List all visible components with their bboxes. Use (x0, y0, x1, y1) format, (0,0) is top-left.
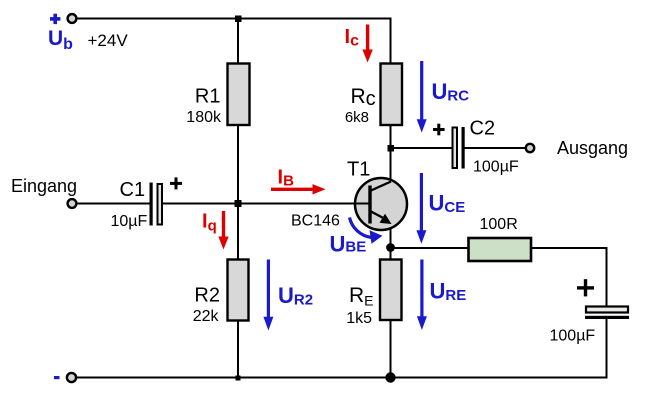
arrow URE blue (417, 260, 427, 331)
svg-text:6k8: 6k8 (345, 109, 369, 126)
svg-text:22k: 22k (193, 308, 220, 325)
arrow IB red (271, 184, 326, 194)
svg-text:100µF: 100µF (473, 159, 519, 176)
node collector junction (388, 145, 395, 152)
resistor R1 (228, 64, 250, 126)
svg-text:Rc: Rc (351, 85, 376, 110)
capacitor C2 (453, 127, 465, 169)
svg-text:Eingang: Eingang (11, 176, 77, 196)
svg-text:T1: T1 (347, 159, 370, 181)
capacitor C3 100uF (585, 307, 629, 320)
svg-text:100µF: 100µF (550, 328, 596, 345)
svg-text:R2: R2 (194, 285, 220, 307)
wire R1 top drop (237, 19, 239, 65)
svg-text:+24V: +24V (88, 31, 129, 50)
wire base node to R2 (237, 204, 239, 261)
arrow UR2 blue (263, 260, 273, 331)
wire Eingang to C1 (76, 203, 150, 205)
wire RE bottom to rail (390, 320, 392, 378)
wire bottom rail (76, 377, 608, 379)
capacitor C1 (150, 183, 163, 226)
resistor Rc (381, 64, 403, 126)
wire Rc top drop (390, 18, 392, 65)
resistor 100R (469, 238, 532, 261)
arrow Iq red (218, 211, 228, 250)
arrow UCE blue (416, 173, 426, 244)
wire Rc bottom to collector (390, 125, 392, 183)
wire emitter node to 100R (391, 247, 470, 249)
arrow Ic red (362, 25, 372, 63)
terminal Ub plus (68, 14, 77, 23)
resistor RE (380, 260, 402, 321)
label minus sign (54, 376, 60, 379)
terminal Ausgang (526, 144, 534, 152)
svg-text:180k: 180k (186, 109, 222, 126)
svg-text:Ausgang: Ausgang (557, 138, 628, 158)
wire C2 to Ausgang (464, 147, 527, 149)
svg-text:C1: C1 (120, 179, 146, 201)
arrow UBE blue arc (350, 218, 383, 244)
wire 100R to right corner (531, 247, 607, 249)
wire C3 to bottom rail (606, 318, 608, 379)
plus C2 (433, 124, 445, 136)
svg-text:C2: C2 (470, 118, 496, 140)
wire top rail (77, 18, 391, 20)
wire C1 to base (163, 203, 371, 205)
terminal Eingang (68, 199, 77, 208)
svg-text:1k5: 1k5 (346, 310, 372, 327)
resistor R2 (228, 260, 249, 321)
svg-text:10µF: 10µF (111, 213, 148, 230)
arrow URC blue (417, 61, 427, 133)
node emitter junction (386, 243, 395, 252)
plus C3 (577, 279, 594, 296)
wire emitter to node (390, 222, 392, 260)
svg-text:R1: R1 (195, 86, 221, 108)
wire right corner down to C3 (606, 247, 608, 307)
svg-text:BC146: BC146 (291, 213, 340, 230)
plus C1 (170, 177, 182, 189)
node RE bottom junction (385, 372, 395, 382)
wire collector node to C2 (391, 147, 453, 149)
terminal minus (67, 373, 76, 382)
wire R2 bottom to rail (237, 320, 239, 378)
label Ub plus sign (50, 14, 60, 24)
transistor T1 (355, 178, 407, 230)
wire R1 bottom to base node (237, 125, 239, 204)
node top R1 junction (235, 16, 242, 23)
node base junction (235, 200, 242, 207)
svg-text:100R: 100R (480, 216, 518, 233)
node R2 bottom junction (236, 376, 241, 381)
